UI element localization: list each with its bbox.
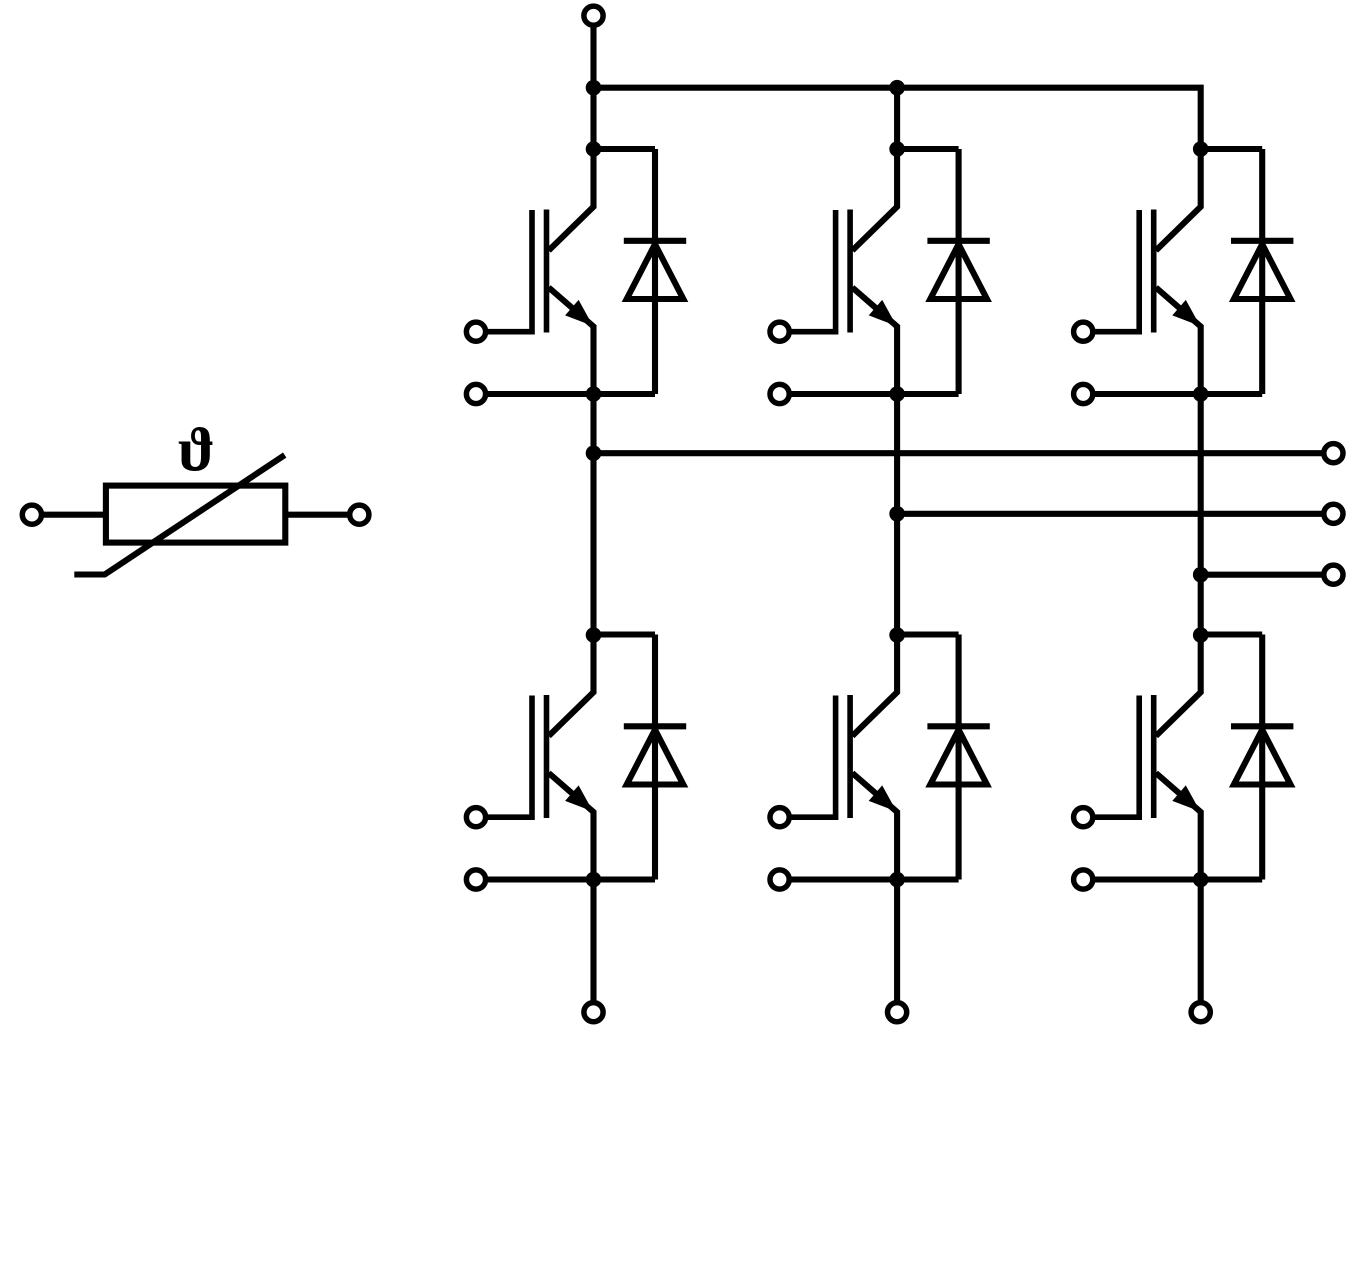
freewheeling diode D4 — [897, 635, 990, 880]
freewheeling diode D1 — [594, 149, 687, 394]
wire: emitter rail 3 (bottom) — [1093, 876, 1262, 882]
wire: AC output 1 — [594, 450, 1322, 456]
junction: AC output tap leg 3 — [1193, 567, 1209, 583]
IGBT T1 (high side, leg 1) — [486, 149, 594, 394]
junction: emitter node leg 2 (bottom) — [889, 872, 905, 888]
thermistor terminal (left) — [22, 505, 41, 524]
IGBT T4 (low side, leg 2) — [789, 635, 897, 880]
top DC+ terminal — [584, 6, 603, 25]
aux emitter terminal E2 — [466, 870, 485, 889]
thermistor R1 (NTC) body — [106, 486, 285, 543]
freewheeling diode D3 — [897, 149, 990, 394]
DC- terminal 1 — [584, 1003, 603, 1022]
junction: collector node leg 3 (bottom) — [1193, 627, 1209, 643]
DC- terminal 3 — [1191, 1003, 1210, 1022]
aux emitter terminal E1 — [466, 384, 485, 403]
wire: AC output 3 — [1201, 572, 1322, 578]
AC output terminal 2 — [1324, 504, 1343, 523]
IGBT T3 (high side, leg 2) — [789, 149, 897, 394]
wire: DC+ terminal to bus — [590, 27, 596, 87]
junction: emitter node leg 3 (bottom) — [1193, 872, 1209, 888]
thermistor R1 slash stroke — [74, 455, 284, 574]
wire: DC+ bus — [594, 88, 1201, 149]
DC- terminal 2 — [888, 1003, 907, 1022]
wire: emitter rail 1 (bottom) — [486, 876, 655, 882]
wire: leg 1 to DC- terminal — [590, 880, 596, 1001]
thermistor terminal (right) — [350, 505, 369, 524]
wire: phase leg 3 midpoint — [1198, 394, 1204, 635]
freewheeling diode D6 — [1201, 635, 1294, 880]
gate terminal G1 — [466, 322, 485, 341]
AC output terminal 3 — [1324, 565, 1343, 584]
wire: bus drop leg 1 — [590, 88, 596, 149]
wire: phase leg 1 midpoint — [590, 394, 596, 635]
wire: phase leg 2 midpoint — [894, 394, 900, 635]
junction: emitter node leg 1 (top) — [586, 386, 602, 402]
wire: leg 2 to DC- terminal — [894, 880, 900, 1001]
junction: collector node leg 3 (top) — [1193, 141, 1209, 157]
gate terminal G4 — [770, 808, 789, 827]
aux emitter terminal E4 — [770, 870, 789, 889]
AC output terminal 1 — [1324, 444, 1343, 463]
wire: emitter rail 2 (top) — [789, 391, 958, 397]
junction: collector node leg 1 (top) — [586, 141, 602, 157]
freewheeling diode D2 — [594, 635, 687, 880]
junction: emitter node leg 1 (bottom) — [586, 872, 602, 888]
junction: collector node leg 2 (bottom) — [889, 627, 905, 643]
junction: collector node leg 1 (bottom) — [586, 627, 602, 643]
wire: emitter rail 3 (top) — [1093, 391, 1262, 397]
gate terminal G6 — [1074, 808, 1093, 827]
wire: emitter rail 1 (top) — [486, 391, 655, 397]
junction: bus / leg 1 — [586, 80, 602, 96]
gate terminal G5 — [1074, 322, 1093, 341]
junction: emitter node leg 3 (top) — [1193, 386, 1209, 402]
junction: AC output tap leg 2 — [889, 506, 905, 522]
wire: left lead of thermistor — [44, 512, 104, 518]
gate terminal G2 — [466, 808, 485, 827]
IGBT T5 (high side, leg 3) — [1093, 149, 1201, 394]
aux emitter terminal E5 — [1074, 384, 1093, 403]
svg-text:ϑ: ϑ — [178, 417, 215, 485]
IGBT T6 (low side, leg 3) — [1093, 635, 1201, 880]
junction: AC output tap leg 1 — [586, 445, 602, 461]
gate terminal G3 — [770, 322, 789, 341]
wire: emitter rail 2 (bottom) — [789, 876, 958, 882]
wire: AC output 2 — [897, 511, 1322, 517]
wire: leg 3 to DC- terminal — [1198, 880, 1204, 1001]
junction: emitter node leg 2 (top) — [889, 386, 905, 402]
aux emitter terminal E6 — [1074, 870, 1093, 889]
aux emitter terminal E3 — [770, 384, 789, 403]
junction: bus / leg 2 — [889, 80, 905, 96]
freewheeling diode D5 — [1201, 149, 1294, 394]
IGBT T2 (low side, leg 1) — [486, 635, 594, 880]
junction: collector node leg 2 (top) — [889, 141, 905, 157]
wire: bus drop leg 2 — [894, 88, 900, 149]
wire: right lead of thermistor — [288, 512, 348, 518]
